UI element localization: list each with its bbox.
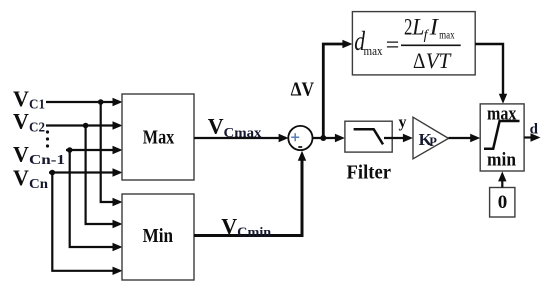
svg-text:V: V bbox=[221, 214, 237, 239]
svg-text:0: 0 bbox=[498, 192, 508, 213]
block Min bbox=[122, 194, 194, 280]
gain Kp bbox=[413, 117, 449, 159]
svg-text:C2: C2 bbox=[29, 120, 45, 135]
wire branch 3 to Min bbox=[70, 150, 123, 251]
wire V_Cmax from Max to summer bbox=[194, 134, 289, 142]
wire branch 4 to Min bbox=[52, 173, 122, 276]
svg-text:V: V bbox=[13, 165, 29, 190]
svg-text:Cmin: Cmin bbox=[237, 226, 271, 241]
wire dmax output down to limiter bbox=[475, 44, 507, 104]
svg-text:ΔV: ΔV bbox=[291, 79, 315, 101]
svg-text:=: = bbox=[386, 32, 400, 58]
svg-text:max: max bbox=[439, 27, 455, 41]
block Max bbox=[122, 94, 194, 180]
wire branch 1 to Min bbox=[101, 102, 123, 206]
svg-text:VT: VT bbox=[426, 48, 452, 73]
wire input 1 into Max bbox=[46, 98, 123, 106]
svg-text:Cn: Cn bbox=[29, 177, 48, 192]
svg-text:L: L bbox=[411, 15, 424, 40]
svg-text:Filter: Filter bbox=[347, 162, 392, 184]
svg-text:d: d bbox=[530, 122, 539, 138]
vertical ellipsis dots bbox=[46, 130, 49, 147]
node V_Cn label bbox=[13, 165, 48, 192]
junction dot delta-V node bbox=[320, 135, 326, 141]
block dmax formula bbox=[352, 12, 475, 75]
block Filter bbox=[345, 121, 392, 152]
junction dot on input 2 bbox=[83, 123, 89, 129]
wire limiter output d bbox=[524, 133, 540, 141]
svg-text:Cn-1: Cn-1 bbox=[29, 153, 65, 168]
wire summer output to Filter bbox=[313, 134, 345, 142]
svg-text:I: I bbox=[429, 15, 440, 40]
svg-text:2: 2 bbox=[404, 15, 412, 40]
svg-text:Max: Max bbox=[143, 127, 175, 149]
svg-text:V: V bbox=[13, 86, 29, 111]
wire Filter to Kp bbox=[384, 134, 413, 142]
node V_C1 label bbox=[13, 86, 45, 113]
junction dot on input 4 bbox=[50, 170, 56, 176]
junction dot on input 3 bbox=[67, 147, 73, 153]
wire zero into limiter bbox=[498, 171, 506, 187]
svg-text:C1: C1 bbox=[29, 98, 45, 113]
wire input 2 into Max bbox=[46, 121, 123, 129]
svg-text:Min: Min bbox=[143, 225, 174, 247]
node V_Cn-1 label bbox=[13, 141, 65, 167]
node V_C2 label bbox=[13, 109, 45, 136]
svg-text:V: V bbox=[13, 141, 29, 166]
summing junction U1 bbox=[288, 126, 312, 150]
svg-text:P: P bbox=[429, 135, 437, 149]
wire Kp to limiter bbox=[449, 134, 481, 142]
label V_Cmin bbox=[221, 214, 271, 241]
wire branch up to dmax formula bbox=[323, 40, 352, 138]
svg-text:min: min bbox=[487, 150, 516, 171]
block limiter max/min bbox=[480, 103, 524, 171]
svg-text:V: V bbox=[13, 109, 29, 134]
block zero constant bbox=[490, 188, 515, 218]
label V_Cmax bbox=[208, 114, 262, 141]
svg-text:Cmax: Cmax bbox=[224, 126, 262, 141]
svg-text:V: V bbox=[208, 114, 224, 139]
svg-text:Δ: Δ bbox=[413, 48, 425, 73]
junction dot on input 1 bbox=[98, 99, 104, 105]
wire input 3 into Max bbox=[66, 146, 123, 154]
wire V_Cmin from Min up to summer bbox=[194, 151, 306, 236]
wire branch 2 to Min bbox=[86, 126, 123, 229]
svg-text:max: max bbox=[364, 43, 383, 58]
wire input 4 into Max bbox=[49, 168, 123, 176]
svg-text:y: y bbox=[399, 114, 407, 131]
